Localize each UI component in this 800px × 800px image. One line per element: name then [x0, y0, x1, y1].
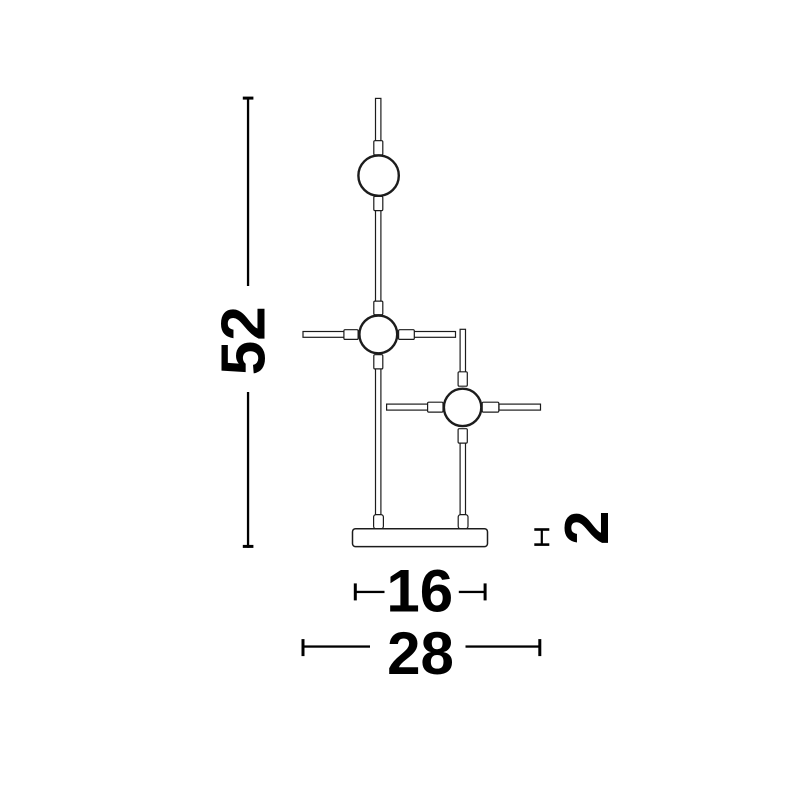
collar sphere3 left arm: [428, 402, 443, 412]
base plate: [353, 529, 488, 547]
sphere3 glass globe: [444, 389, 481, 426]
dimension 16 line right segment: [459, 591, 485, 593]
collar above sphere1: [374, 141, 383, 155]
dimension 52 vertical line lower segment: [247, 392, 249, 548]
rod sphere2 right arm: [414, 332, 456, 338]
rod sphere3 top vertical: [460, 329, 465, 372]
dimension 28 right tick: [538, 639, 541, 656]
collar sphere2 right arm: [399, 330, 415, 340]
collar above sphere3: [458, 372, 467, 386]
dimension 16 right tick: [484, 583, 487, 600]
dimension 2 top tick: [534, 528, 549, 531]
dimension 28 line right segment: [466, 645, 540, 647]
rod between sphere2 and base: [376, 368, 381, 516]
collar below sphere2: [374, 355, 383, 369]
dimension 52 bottom tick: [243, 545, 254, 548]
dimension 2 bottom tick: [534, 543, 549, 546]
dimension 28 line left segment: [303, 645, 370, 647]
dimension 2 label: [553, 511, 622, 545]
collar above sphere2: [374, 301, 383, 315]
sphere1 glass globe: [358, 155, 398, 195]
dimension 16 label: [386, 557, 453, 624]
dimension 52 vertical line upper segment: [247, 97, 249, 286]
rod sphere3 left arm: [387, 404, 428, 410]
sphere2 glass globe: [359, 316, 397, 354]
dimension 28 left tick: [302, 639, 305, 656]
svg-text:52: 52: [209, 306, 278, 375]
collar below sphere1: [374, 196, 383, 210]
collar sphere3 right arm: [482, 402, 499, 412]
collar below sphere3: [458, 429, 467, 443]
collar base left: [374, 515, 384, 529]
dimension 52 label: [209, 306, 278, 375]
dimension 16 line left segment: [355, 591, 384, 593]
rod sphere3 bottom vertical: [460, 442, 465, 516]
dimension 16 left tick: [354, 583, 357, 600]
rod top vertical: [376, 98, 381, 140]
dimension 52 top tick: [243, 97, 254, 100]
rod sphere2 left arm: [303, 332, 345, 338]
rod sphere3 right arm: [499, 404, 541, 410]
svg-text:2: 2: [553, 511, 622, 545]
rod between sphere1 and sphere2: [376, 210, 381, 302]
svg-text:28: 28: [387, 620, 454, 687]
dimension 2 vertical line: [541, 530, 543, 545]
svg-text:16: 16: [386, 557, 453, 624]
collar base right: [458, 515, 468, 529]
dimension 28 label: [387, 620, 454, 687]
collar sphere2 left arm: [344, 330, 358, 340]
